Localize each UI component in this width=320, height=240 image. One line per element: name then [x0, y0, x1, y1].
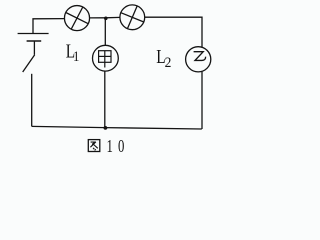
svg-text:2: 2 [165, 54, 172, 71]
svg-text:1: 1 [107, 137, 113, 157]
svg-text:1: 1 [73, 49, 79, 65]
svg-text:0: 0 [118, 137, 124, 157]
